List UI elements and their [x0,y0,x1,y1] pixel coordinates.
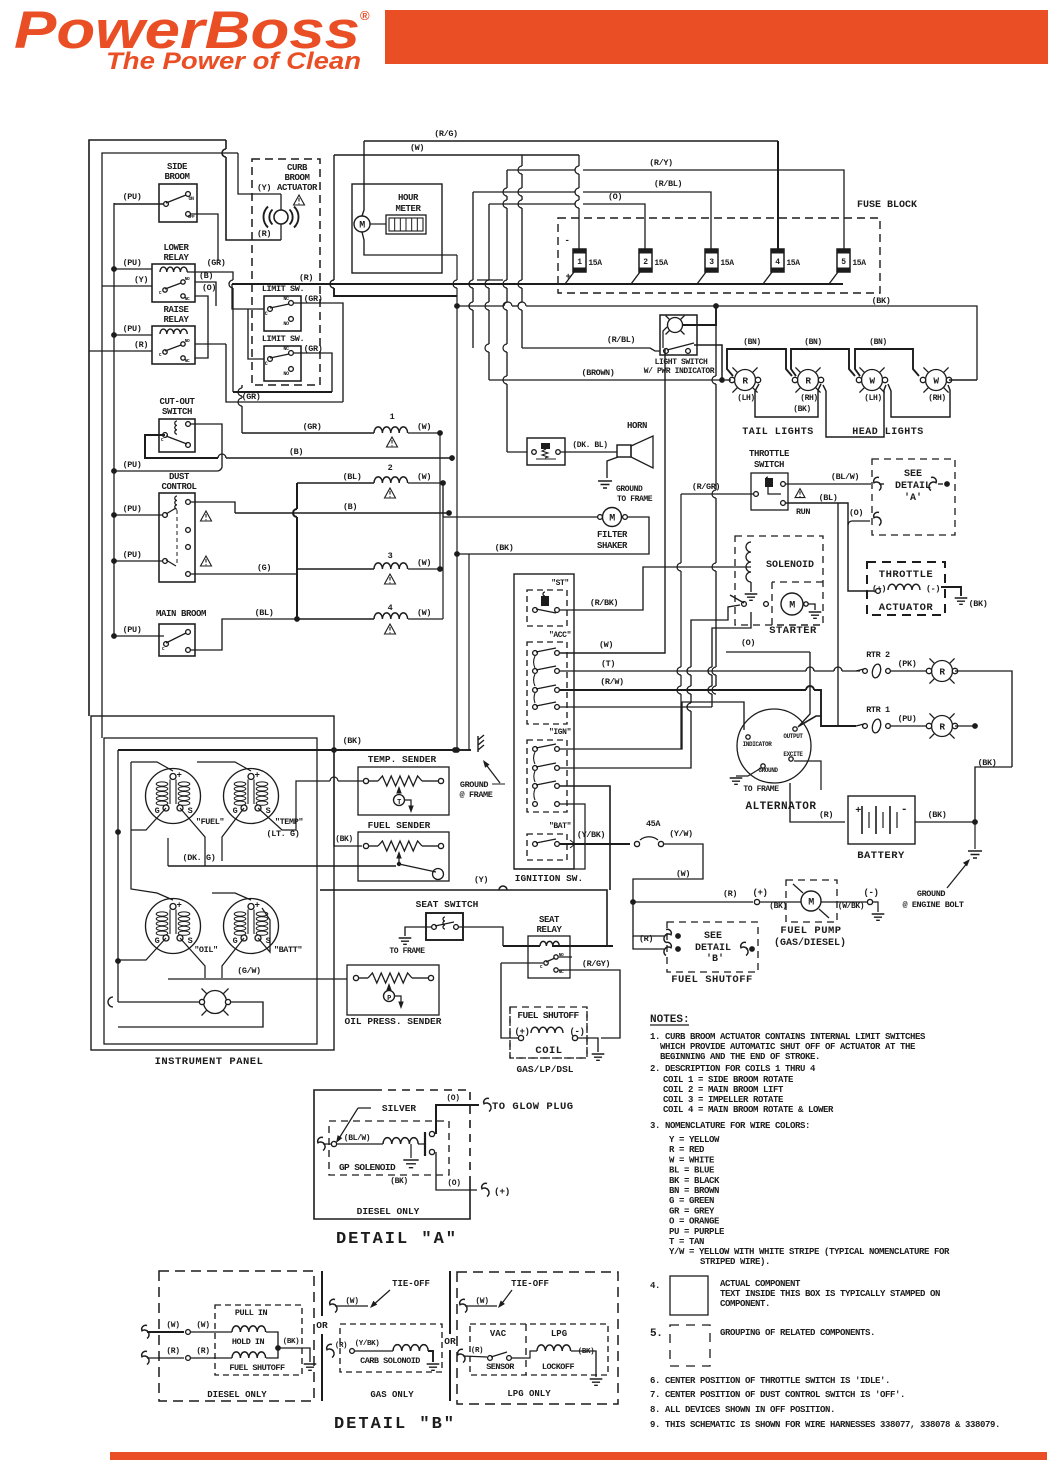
svg-text:R: R [742,376,748,387]
svg-text:PULL IN: PULL IN [235,1308,268,1318]
svg-text:1: 1 [577,258,582,267]
svg-text:(R): (R) [134,340,148,350]
svg-text:BATTERY: BATTERY [857,850,905,862]
svg-text:GROUND: GROUND [460,780,489,790]
fuse 2 [639,249,652,272]
svg-text:R: R [939,722,945,733]
svg-text:(T): (T) [601,659,615,669]
coil carb solonoid [393,1345,428,1351]
svg-text:(BL): (BL) [819,493,838,503]
wire (LT. G) run [282,829,296,831]
carb solonoid dashed box [340,1324,442,1372]
svg-text:GROUND: GROUND [616,485,643,494]
switch vac sensor [488,1356,493,1361]
svg-text:(G): (G) [257,563,271,573]
warning symbol dust control 2 [201,556,212,566]
hook to glow plug [484,1098,491,1111]
svg-text:NC: NC [283,346,289,352]
svg-text:"IGN": "IGN" [549,728,571,737]
wire alternator output to RW diagonal [799,716,821,726]
svg-text:INDICATOR: INDICATOR [743,741,773,748]
svg-text:(Y): (Y) [474,875,488,885]
motor fuel pump M [801,891,821,911]
svg-text:5: 5 [841,258,846,267]
detail B diesel box [159,1271,314,1401]
svg-text:DETAIL "A": DETAIL "A" [336,1230,458,1249]
svg-text:ALTERNATOR: ALTERNATOR [745,801,816,813]
wire battery minus to ground [974,822,976,849]
svg-text:RAISE: RAISE [163,305,189,315]
wire RTR2 to R lamp [891,670,929,672]
svg-text:(W): (W) [417,608,431,618]
svg-text:TAIL LIGHTS: TAIL LIGHTS [742,427,814,438]
svg-text:GAS/LP/DSL: GAS/LP/DSL [516,1064,573,1075]
svg-text:"TEMP": "TEMP" [275,817,304,827]
svg-text:INSTRUMENT PANEL: INSTRUMENT PANEL [155,1056,264,1068]
node see detail A [938,483,943,485]
gauge OIL [146,899,201,954]
svg-text:"OIL": "OIL" [194,945,218,955]
wire fuel gauge G S cross [131,808,166,830]
svg-text:(W): (W) [475,1297,488,1306]
wire batt gauge cross [222,938,244,978]
svg-text:C: C [265,361,268,367]
resistor temp sender [378,776,422,786]
svg-text:S: S [188,936,193,946]
svg-text:(Y/BK): (Y/BK) [577,830,605,840]
svg-text:DETAIL: DETAIL [895,481,931,492]
gauge TEMP [224,769,279,824]
svg-text:TIE-OFF: TIE-OFF [511,1279,549,1289]
wire lamp feed dot to lamp1 [725,379,731,381]
wire RTR2 blade [856,669,864,671]
svg-text:SENSOR: SENSOR [486,1362,515,1372]
svg-text:S: S [266,806,271,816]
wire oil gauge cross [118,938,166,960]
ground at frame (instrument BK) [478,735,484,752]
svg-text:HORN: HORN [627,421,647,431]
svg-text:(BL): (BL) [255,608,274,618]
resistor fuel sender [378,841,422,851]
svg-text:9. THIS SCHEMATIC IS SHOWN FOR: 9. THIS SCHEMATIC IS SHOWN FOR WIRE HARN… [650,1420,1000,1430]
wire limit sw feeds [232,284,264,309]
wire alternator ground to frame [736,768,761,776]
svg-text:4.: 4. [650,1281,660,1291]
wire seat switch to ground [405,927,431,936]
svg-text:(BL/W): (BL/W) [344,1134,370,1143]
svg-text:TO FRAME: TO FRAME [389,947,425,956]
svg-text:FILTER: FILTER [597,530,628,540]
svg-text:W = WHITE: W = WHITE [669,1155,715,1165]
hook see detail A bottom [874,512,881,525]
svg-text:4: 4 [388,603,393,613]
wire RTR1 to R lamp [891,725,929,727]
svg-text:ACTUATOR: ACTUATOR [277,183,318,193]
svg-text:NC: NC [185,358,190,364]
svg-text:(W): (W) [345,1297,358,1306]
lamp tail light RH (R) [798,370,819,391]
wire vertical bundle b (R/BL lamp feed) [521,155,523,166]
node coil4 left junction [294,616,300,622]
coil lpg lockoff [537,1345,571,1351]
divider OR 1 [321,1271,323,1316]
svg-text:LIGHT SWITCH: LIGHT SWITCH [655,358,708,367]
svg-text:"ST": "ST" [551,579,569,588]
orange footer bar [110,1452,1047,1460]
svg-text:(BL/W): (BL/W) [831,472,859,482]
hook fuel shutoff 1 [664,929,671,942]
hook see detail A top [874,477,881,490]
svg-text:-: - [564,236,569,246]
svg-text:FUEL SENDER: FUEL SENDER [368,820,431,831]
wire gauge feeds top [131,762,173,771]
svg-text:LPG: LPG [551,1329,567,1339]
svg-text:G = GREEN: G = GREEN [669,1196,714,1206]
wire starter blade [730,595,744,603]
ground at engine bolt [968,851,982,858]
svg-text:SEE: SEE [904,469,922,480]
oil sender wiper [386,983,391,991]
svg-text:FUSE BLOCK: FUSE BLOCK [857,200,917,211]
svg-text:(PU): (PU) [123,625,142,635]
svg-text:+: + [176,771,181,781]
svg-text:RUN: RUN [796,507,810,517]
svg-text:45A: 45A [646,819,661,829]
svg-text:(O): (O) [849,508,863,518]
actuator CURB BROOM ACTUATOR dashed group box [252,159,320,385]
svg-text:P: P [387,995,391,1003]
coil GP solenoid [383,1138,418,1144]
svg-text:(PU): (PU) [123,324,142,334]
svg-text:"ACC": "ACC" [549,631,571,640]
fuse 4 [771,249,784,272]
svg-text:GROUND: GROUND [917,889,946,899]
wire coil W returns [439,433,441,569]
wire ignition IGN to alternator indicator [560,702,744,749]
svg-text:RTR 1: RTR 1 [866,705,890,715]
svg-text:"FUEL": "FUEL" [196,817,225,827]
svg-text:TO GLOW PLUG: TO GLOW PLUG [492,1101,574,1113]
svg-text:S: S [188,806,193,816]
svg-text:(BK): (BK) [969,599,988,609]
fuse 3 [705,249,718,272]
wire vertical bundle d (R/GR) [506,170,508,188]
hook see detail A right [929,477,936,490]
wire to fuel shutoff coil plus [501,963,518,1038]
svg-text:BEGINNING AND THE END OF STROK: BEGINNING AND THE END OF STROKE. [660,1052,820,1062]
wire throttle feed riser [680,494,682,563]
svg-text:SOLENOID: SOLENOID [766,560,814,571]
svg-text:OR: OR [316,1320,328,1331]
arrow ground at engine bolt [947,862,968,888]
svg-text:(PU): (PU) [123,460,142,470]
svg-text:WHICH PROVIDE AUTOMATIC SHUT O: WHICH PROVIDE AUTOMATIC SHUT OFF OF ACTU… [660,1042,916,1052]
svg-text:SEE: SEE [704,931,722,942]
wire raise relay outputs [195,343,226,345]
svg-text:(R): (R) [166,1347,179,1356]
wire horn button feed [507,451,527,453]
svg-text:(R/GY): (R/GY) [582,959,610,969]
wire (Y) from fuel sender area [320,889,334,891]
svg-text:COMPONENT.: COMPONENT. [720,1299,770,1309]
svg-text:M: M [359,221,365,232]
svg-text:M: M [609,514,615,525]
wire instrument left bus [117,750,119,1002]
lamp head light RH (W) [926,370,947,391]
wire hold in to junction [266,1348,278,1358]
svg-text:(R/BK): (R/BK) [590,598,618,608]
wire fuel sender float arm [399,864,436,872]
svg-text:THROTTLE: THROTTLE [749,449,790,459]
svg-text:M: M [808,898,814,909]
svg-text:'A': 'A' [904,492,922,504]
svg-text:(R/BL): (R/BL) [654,179,682,189]
wire fuse outputs diagonal to + bus [565,272,574,284]
svg-text:TO FRAME: TO FRAME [617,495,653,504]
svg-text:(BK): (BK) [769,902,787,911]
svg-text:ON: ON [188,196,194,202]
wire left frame (R) top [89,140,226,716]
svg-text:BROOM: BROOM [284,173,309,183]
svg-text:-: - [901,804,907,816]
svg-text:DIESEL ONLY: DIESEL ONLY [207,1390,267,1400]
wire filter shaker right loop [457,517,649,554]
arrow ground at frame [484,762,500,783]
svg-text:GROUPING OF RELATED COMPONENTS: GROUPING OF RELATED COMPONENTS. [720,1328,875,1338]
svg-text:C: C [265,311,268,317]
svg-text:(BN): (BN) [743,338,761,347]
svg-text:@ FRAME: @ FRAME [460,790,493,800]
coil pull in [232,1326,266,1332]
hook fuel shutoff 2 [664,942,671,955]
instrument panel outer box [91,716,334,1050]
svg-text:(W): (W) [599,640,613,650]
svg-text:SEAT SWITCH: SEAT SWITCH [416,899,479,910]
wire fuel pump M leads [760,901,801,903]
svg-text:(Y): (Y) [257,183,271,193]
svg-text:3. NOMENCLATURE FOR WIRE COLOR: 3. NOMENCLATURE FOR WIRE COLORS: [650,1121,810,1131]
svg-text:"BATT": "BATT" [274,945,303,955]
svg-text:+: + [254,901,259,911]
svg-text:COIL: COIL [535,1045,562,1057]
svg-text:G: G [155,806,160,816]
wire cut-out top to PU bus [191,424,222,465]
wire gp coil to contact bar [418,1143,424,1145]
svg-text:DETAIL: DETAIL [695,943,731,954]
svg-text:FUEL PUMP: FUEL PUMP [780,925,841,937]
svg-text:LOWER: LOWER [163,243,189,253]
wire alternator excite [794,761,821,790]
motor curb broom actuator [274,210,288,224]
svg-text:ACTUATOR: ACTUATOR [879,602,934,614]
warning symbol curb broom [294,195,305,205]
wire light switch out to lamps [694,345,722,380]
fuel sender wiper [396,851,401,859]
svg-text:6. CENTER POSITION OF THROTTLE: 6. CENTER POSITION OF THROTTLE SWITCH IS… [650,1376,890,1386]
svg-text:(GR): (GR) [207,258,226,268]
svg-text:FUEL SHUTOFF: FUEL SHUTOFF [671,974,753,986]
node detail B coils junction [275,1345,281,1351]
wire temp sender T to ground arrow [405,800,411,810]
svg-text:(BL): (BL) [343,472,362,482]
svg-text:ACTUAL COMPONENT: ACTUAL COMPONENT [720,1279,801,1289]
svg-text:"BAT": "BAT" [549,822,571,831]
svg-text:(BK): (BK) [343,736,362,746]
wire see detail A stub [879,483,884,485]
wire ignition IGN 2 to starter [560,711,691,768]
svg-text:STARTER: STARTER [769,625,817,637]
svg-text:RELAY: RELAY [163,315,189,325]
svg-text:W: W [933,376,939,387]
wire ignition IGN 4 [514,804,585,869]
node bus a top [454,303,460,309]
svg-text:MAIN BROOM: MAIN BROOM [156,609,206,619]
svg-text:FUEL SHUTOFF: FUEL SHUTOFF [517,1010,579,1021]
fuse 1 [573,249,586,272]
gauge BATT [224,899,279,954]
svg-text:(R/BL): (R/BL) [607,335,635,345]
svg-text:NC: NC [283,296,289,302]
svg-text:(Y): (Y) [134,275,148,285]
wire fuel shutoff coil minus to ground [578,1038,598,1052]
node battery minus junction [972,819,978,825]
svg-text:R: R [805,376,811,387]
svg-text:(PU): (PU) [898,714,917,724]
svg-text:METER: METER [395,204,421,214]
wire (PU) bus [113,203,115,636]
lpg lockoff dashed box [470,1324,608,1375]
wire (R/G) drop to fuse 4 [777,141,779,249]
svg-text:15A: 15A [786,259,800,268]
svg-text:CUT-OUT: CUT-OUT [159,397,195,407]
svg-text:(O): (O) [741,638,755,648]
svg-text:(PU): (PU) [123,550,142,560]
hook detail A left [318,1137,325,1150]
svg-text:(O): (O) [202,283,216,293]
fuse 5 [837,249,850,272]
svg-text:(DK. BL): (DK. BL) [572,441,607,450]
svg-text:(GAS/DIESEL): (GAS/DIESEL) [774,937,846,949]
svg-text:(W): (W) [166,1321,179,1330]
svg-text:G: G [233,806,238,816]
svg-text:OUTPUT: OUTPUT [783,733,803,740]
svg-text:(R): (R) [299,273,313,283]
lamp head light LH (W) [862,370,883,391]
node (B) junctions [449,455,455,461]
wire (GR) limit loop thick [233,391,332,393]
wire coil bus vertical [296,483,298,509]
svg-text:(Y/BK): (Y/BK) [355,1340,380,1348]
svg-text:(O): (O) [608,192,622,202]
svg-text:1: 1 [390,412,395,422]
warning symbol dust control 1 [201,511,212,521]
svg-text:(BROWN): (BROWN) [582,368,615,378]
wire coil1 gr drop [241,385,243,388]
lamp tail light LH (R) [735,370,756,391]
wire hour meter M to register [370,223,386,225]
lamp R bottom (RTR1) [932,716,953,737]
svg-text:DUST: DUST [169,472,190,482]
wire (GR) limit loop thin [293,302,295,304]
wire light switch lamp left [663,327,667,348]
svg-text:W: W [869,376,875,387]
svg-text:W/ PWR INDICATOR: W/ PWR INDICATOR [644,367,715,376]
svg-text:(R): (R) [819,810,833,820]
detail A outer box [314,1090,470,1219]
svg-text:(DK. G): (DK. G) [183,853,216,863]
svg-text:7. CENTER POSITION OF DUST CON: 7. CENTER POSITION OF DUST CONTROL SWITC… [650,1390,905,1400]
fuel shutoff dashed box [667,922,758,972]
svg-text:'B': 'B' [706,953,724,965]
svg-text:(BN): (BN) [869,338,887,347]
solenoid group dashed box [735,536,823,625]
wire light switch lamp to BK bus [683,306,716,325]
svg-text:G: G [155,936,160,946]
svg-text:RELAY: RELAY [536,925,562,935]
svg-text:HOLD IN: HOLD IN [232,1337,265,1347]
svg-text:BN = BROWN: BN = BROWN [669,1186,719,1196]
wire ACC 4th contact to starter [560,706,712,708]
svg-text:(-): (-) [926,584,940,594]
svg-text:LPG ONLY: LPG ONLY [507,1389,551,1399]
svg-text:(BN): (BN) [804,338,822,347]
svg-text:SIDE: SIDE [167,162,188,172]
instrument panel inner box [104,738,317,1044]
svg-text:COIL 3 = IMPELLER ROTATE: COIL 3 = IMPELLER ROTATE [663,1095,784,1105]
wire vertical bus a lower [456,306,458,750]
svg-text:(R/W): (R/W) [600,677,624,687]
svg-text:R = RED: R = RED [669,1145,705,1155]
wire seat relay coil left [503,945,540,947]
svg-text:(+): (+) [494,1186,510,1197]
alternator circle [737,709,811,783]
wire cut-out switch left loop [145,435,218,458]
wire solenoid coil bottom [750,582,752,592]
pull in dashed box [215,1305,302,1375]
node coil2 junction [440,480,446,486]
wire seat relay NO out [559,956,572,958]
svg-text:(BK): (BK) [335,835,353,844]
wire vertical bundle c (BROWN) [488,204,490,280]
svg-text:(W): (W) [676,869,690,879]
alternator terminals [746,735,750,739]
svg-text:+: + [254,771,259,781]
temp sender wiper [398,788,400,793]
svg-text:(Y/W): (Y/W) [669,829,693,839]
svg-text:15A: 15A [720,259,734,268]
svg-text:(GR): (GR) [242,392,261,402]
svg-text:The Power of Clean: The Power of Clean [106,48,361,75]
switch LIGHT SWITCH W/PWR INDICATOR [660,315,697,355]
svg-text:OFF: OFF [188,214,195,220]
svg-text:STRIPED WIRE).: STRIPED WIRE). [700,1257,770,1267]
svg-text:(O): (O) [446,1094,459,1103]
wire (W) drop to fuse 1 [578,155,580,166]
svg-text:LIMIT SW.: LIMIT SW. [262,334,304,344]
svg-text:NO: NO [283,321,289,327]
svg-text:2: 2 [388,463,393,473]
wire bk drop from filter loop [468,554,470,750]
svg-text:COIL 1 = SIDE BROOM ROTATE: COIL 1 = SIDE BROOM ROTATE [663,1075,794,1085]
battery box [848,796,915,844]
wire left frame (Y) [102,153,222,738]
svg-text:(G/W): (G/W) [237,966,261,976]
wire temp gauge cross [222,808,244,861]
svg-text:(RH): (RH) [800,394,818,403]
svg-text:(-): (-) [863,888,878,898]
motor FILTER SHAKER [603,508,622,527]
wire dust control top out [191,502,235,513]
